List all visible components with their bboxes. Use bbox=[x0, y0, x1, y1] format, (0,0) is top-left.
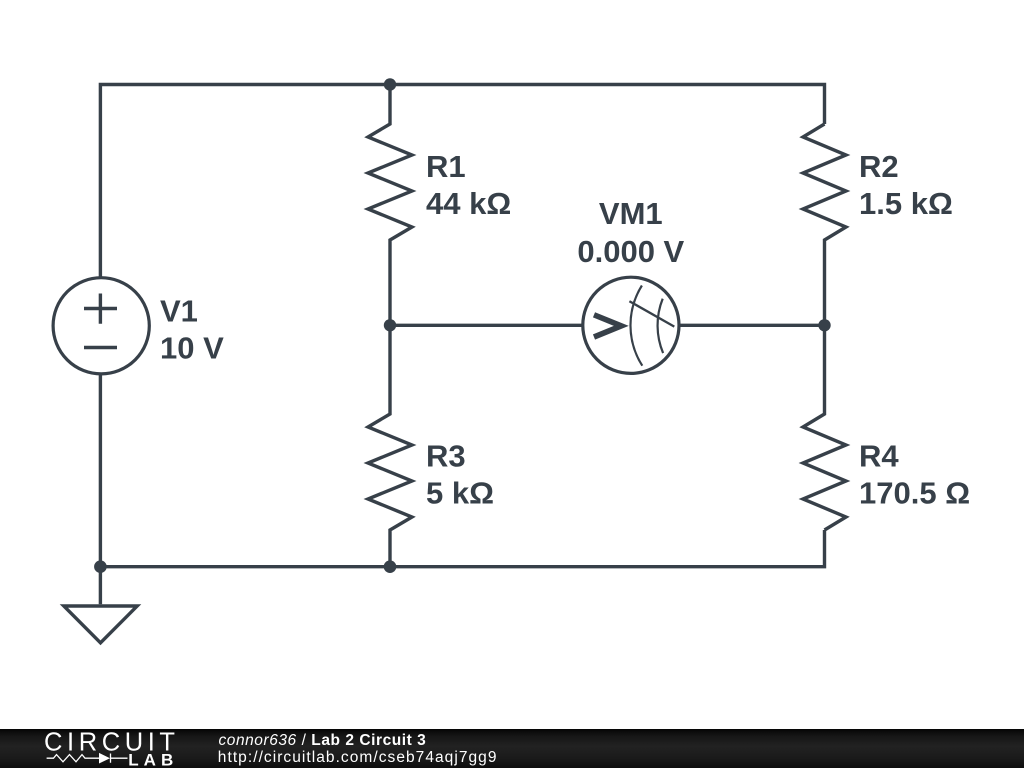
wire bottom rail and R4 bottom lead bbox=[100, 530, 824, 567]
svg-text:VM1: VM1 bbox=[599, 196, 663, 231]
label R4 value bbox=[859, 438, 970, 510]
svg-text:10 V: 10 V bbox=[160, 330, 224, 365]
svg-text:connor636 / Lab 2 Circuit 3: connor636 / Lab 2 Circuit 3 bbox=[219, 732, 427, 749]
wire left rail lower (V1 bottom to ground) bbox=[99, 374, 102, 605]
voltmeter VM1 circle bbox=[583, 277, 679, 373]
footer logo resistor-diode glyph bbox=[47, 754, 128, 763]
svg-text:http://circuitlab.com/cseb74aq: http://circuitlab.com/cseb74aqj7gg9 bbox=[218, 749, 498, 766]
VM1 needle bbox=[629, 301, 674, 326]
svg-text:R2: R2 bbox=[859, 149, 899, 184]
VM1 gauge arc outer bbox=[658, 299, 664, 353]
V1 plus sign bbox=[84, 294, 117, 324]
resistor R2 bbox=[803, 124, 846, 325]
footer credit line bbox=[219, 732, 427, 749]
svg-text:5 kΩ: 5 kΩ bbox=[426, 475, 494, 510]
footer bar bbox=[0, 729, 1024, 768]
svg-text:170.5 Ω: 170.5 Ω bbox=[859, 475, 970, 510]
node dot bottom (R3 bottom) bbox=[384, 560, 397, 573]
label R3 value bbox=[426, 438, 494, 510]
footer url line bbox=[218, 749, 498, 766]
resistor R3 bbox=[368, 325, 412, 566]
ground symbol triangle bbox=[64, 606, 137, 643]
wire middle left (node to VM1 left terminal) bbox=[390, 324, 583, 327]
svg-text:LAB: LAB bbox=[128, 750, 178, 768]
voltage source V1 circle bbox=[53, 278, 149, 374]
VM1 gauge arc inner bbox=[630, 286, 642, 366]
svg-text:R1: R1 bbox=[426, 149, 466, 184]
svg-text:R4: R4 bbox=[859, 438, 899, 473]
svg-text:R3: R3 bbox=[426, 438, 466, 473]
wire middle right (VM1 right terminal to right rail) bbox=[680, 324, 825, 327]
node dot bottom-left (ground junction) bbox=[94, 560, 107, 573]
label R2 value bbox=[859, 149, 953, 221]
node dot mid-right (R2/R4/VM1) bbox=[818, 319, 830, 331]
label R1 value bbox=[426, 149, 511, 221]
footer logo LAB bbox=[128, 750, 178, 768]
svg-text:1.5 kΩ: 1.5 kΩ bbox=[859, 186, 953, 221]
svg-text:44 kΩ: 44 kΩ bbox=[426, 186, 511, 221]
label V1 value bbox=[160, 294, 224, 366]
VM1 chevron bbox=[594, 315, 621, 337]
node dot top (R1 top) bbox=[384, 78, 396, 90]
wire left rail upper, top rail and R2 top lead bbox=[100, 85, 824, 278]
node dot mid-left (R1/R3/VM1) bbox=[384, 319, 396, 331]
svg-text:V1: V1 bbox=[160, 294, 198, 329]
V1 minus sign bbox=[84, 346, 117, 349]
label VM1 reading bbox=[577, 196, 684, 269]
svg-text:0.000 V: 0.000 V bbox=[577, 234, 684, 269]
resistor R4 bbox=[803, 325, 846, 530]
footer logo CIRCUIT wordmark bbox=[44, 729, 180, 757]
resistor R1 bbox=[368, 85, 412, 326]
